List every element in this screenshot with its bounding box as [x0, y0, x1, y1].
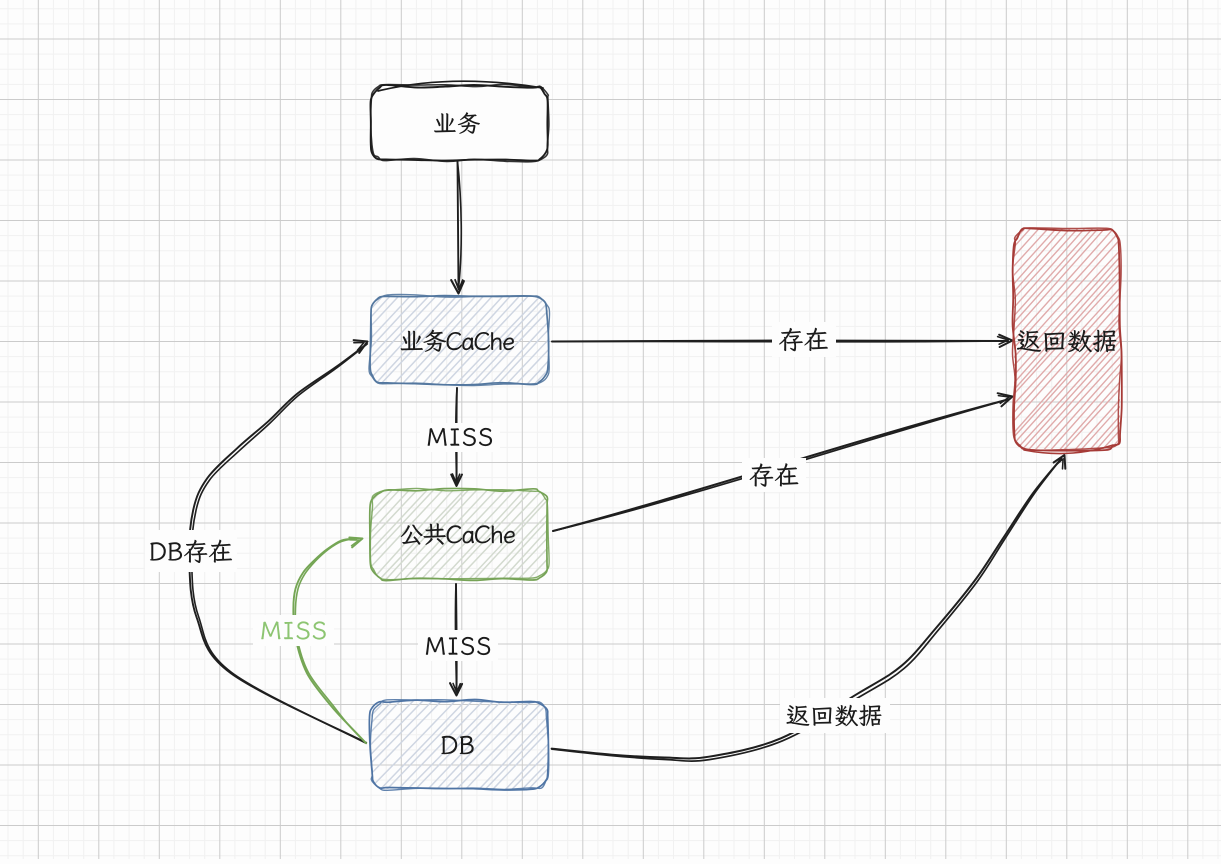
node box 返回数据 [894, 164, 1221, 515]
label backdrop 存在 top [772, 322, 836, 357]
label backdrop MISS bottom [418, 630, 498, 661]
wire curved arrow DB to 业务CaChe labeled DB存在 [189, 344, 366, 743]
label backdrop MISS green [253, 615, 334, 646]
label backdrop DB存在 [145, 530, 237, 572]
wire green curved arrow DB to 公共CaChe labeled MISS [293, 539, 366, 744]
wire arrow 业务CaChe to 公共CaChe labeled MISS [456, 388, 459, 481]
text DB [441, 736, 473, 754]
label 返回数据 bottom [787, 705, 882, 727]
label backdrop MISS top [420, 423, 500, 452]
node box 业务 [372, 86, 548, 160]
overshoot stroke on 业务 box top [378, 81, 543, 91]
wire arrow 业务CaChe to 返回数据 labeled 存在 [552, 341, 1008, 342]
text 业务CaChe [401, 330, 514, 352]
text 业务 [434, 112, 480, 134]
node box 业务CaChe [313, 195, 603, 486]
node box DB [315, 600, 601, 864]
text 返回数据 in red box [1017, 330, 1116, 353]
label MISS bottom [426, 637, 490, 655]
text 公共CaChe [401, 523, 515, 545]
wire arrow 公共CaChe to 返回数据 labeled 存在 [553, 400, 1008, 532]
label MISS top [428, 428, 493, 446]
wire curved arrow DB to 返回数据 labeled 返回数据 [552, 459, 1062, 759]
label MISS green [261, 621, 326, 639]
label DB存在 [150, 540, 232, 563]
label backdrop 存在 mid [742, 458, 806, 492]
label 存在 top [779, 328, 828, 352]
label 存在 mid [750, 463, 799, 487]
wire arrow 公共CaChe to DB labeled MISS [455, 584, 458, 690]
label backdrop 返回数据 bottom [780, 698, 890, 733]
node box 公共CaChe [317, 389, 599, 677]
overshoot stroke on 返回数据 box bottom [1024, 445, 1113, 454]
wire arrow from 业务 to 业务CaChe [458, 161, 459, 288]
